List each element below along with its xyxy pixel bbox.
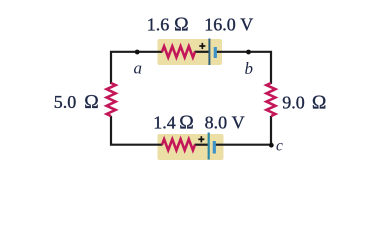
node b junction dot xyxy=(246,50,251,55)
label 5.0 ohm xyxy=(54,92,99,113)
svg-text:Ω: Ω xyxy=(174,15,189,36)
battery 16.0 V short plate (-) xyxy=(214,47,217,58)
svg-text:V: V xyxy=(240,15,253,35)
svg-text:Ω: Ω xyxy=(84,92,99,113)
resistor 5.0 ohm (left) xyxy=(107,83,116,116)
label 1.4 ohm xyxy=(153,113,194,134)
wire bottom middle (resistor to battery) xyxy=(195,144,209,146)
svg-text:1.4: 1.4 xyxy=(153,113,176,133)
svg-text:V: V xyxy=(232,113,245,133)
svg-text:9.0: 9.0 xyxy=(282,92,305,112)
wire top-right corner xyxy=(216,52,271,84)
label 9.0 ohm xyxy=(282,92,326,113)
wire top-left corner (node a segment) xyxy=(111,52,163,84)
svg-text:c: c xyxy=(276,138,283,155)
svg-text:Ω: Ω xyxy=(312,92,327,113)
label 1.6 ohm xyxy=(147,15,189,36)
wire bottom-right corner xyxy=(215,116,271,145)
svg-text:5.0: 5.0 xyxy=(54,92,77,112)
svg-text:Ω: Ω xyxy=(179,113,194,134)
resistor 1.6 ohm (top) xyxy=(162,46,195,57)
wire bottom-left corner xyxy=(111,116,163,145)
battery 8.0 V long plate (+) xyxy=(208,133,210,160)
svg-text:1.6: 1.6 xyxy=(147,15,170,35)
plus sign bottom battery xyxy=(198,136,204,142)
resistor 9.0 ohm (right) xyxy=(266,83,275,116)
highlight behind top resistor/battery xyxy=(158,39,223,65)
svg-text:a: a xyxy=(134,59,143,78)
resistor 1.4 ohm (bottom) xyxy=(162,139,195,150)
battery 8.0 V short plate (-) xyxy=(213,141,216,154)
svg-text:16.0: 16.0 xyxy=(204,15,236,35)
wire top middle (resistor to battery) xyxy=(195,51,209,53)
highlight behind bottom resistor/battery xyxy=(158,134,224,160)
node a junction dot xyxy=(135,50,140,55)
label 8.0 V xyxy=(205,113,245,133)
node c junction dot xyxy=(269,143,274,148)
svg-text:b: b xyxy=(245,59,254,78)
svg-text:8.0: 8.0 xyxy=(205,113,228,133)
battery 16.0 V long plate (+) xyxy=(208,39,210,66)
plus sign top battery xyxy=(199,43,205,49)
label 16.0 V xyxy=(204,15,253,35)
